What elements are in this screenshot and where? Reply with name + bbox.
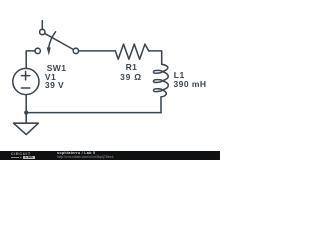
switch SW1 right terminal circle: [73, 48, 78, 53]
watermark bar: [0, 151, 220, 160]
label V1: [45, 73, 56, 82]
switch SW1 blade: [45, 33, 74, 49]
wire junction up to source: [25, 95, 27, 113]
switch SW1 actuation arrow: [49, 32, 56, 48]
junction dot: [24, 111, 28, 115]
switch SW1 top stub wire: [41, 21, 43, 30]
voltage source V1 circle: [13, 68, 39, 94]
label SW1: [47, 64, 67, 73]
wire resistor to inductor corner: [149, 51, 162, 64]
voltage source minus sign: [21, 87, 29, 89]
watermark text line 2: [57, 156, 114, 159]
watermark logo lines: [11, 156, 19, 159]
watermark text line 1: [57, 152, 95, 156]
bottom wire to junction: [26, 112, 161, 114]
watermark logo CIRCUIT: [11, 152, 31, 155]
label 39 V: [45, 81, 64, 90]
switch SW1 left terminal circle: [35, 48, 40, 53]
label 390 mH: [174, 80, 207, 89]
resistor R1: [115, 44, 148, 59]
label L1: [174, 71, 185, 80]
switch SW1 pivot terminal circle: [40, 29, 45, 34]
schematic canvas: [0, 0, 220, 165]
watermark logo LAB: [23, 156, 35, 159]
inductor L1 coil: [153, 64, 168, 97]
wire source top to switch left terminal: [26, 51, 35, 69]
ground symbol: [14, 123, 39, 134]
label R1: [126, 63, 138, 72]
ground stub wire: [25, 113, 27, 124]
wire inductor bottom lead: [160, 97, 162, 113]
label 39 ohm: [120, 73, 142, 82]
voltage source plus sign: [21, 75, 29, 77]
wire switch to resistor: [79, 50, 116, 52]
